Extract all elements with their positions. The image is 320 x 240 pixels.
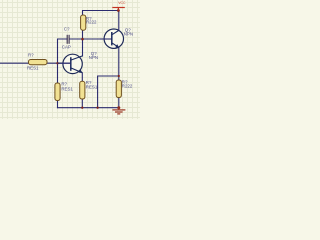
svg-text:CAP: CAP <box>62 45 71 50</box>
svg-text:NPN: NPN <box>89 55 98 60</box>
svg-text:VCC: VCC <box>118 1 126 5</box>
svg-text:R222: R222 <box>86 20 97 25</box>
svg-text:R222: R222 <box>122 83 133 88</box>
svg-text:RES1: RES1 <box>61 87 73 92</box>
svg-text:C?: C? <box>64 26 70 31</box>
svg-text:RES1: RES1 <box>27 66 39 71</box>
svg-text:RES1: RES1 <box>86 84 98 89</box>
svg-text:R?: R? <box>28 53 34 58</box>
svg-text:NPN: NPN <box>124 31 133 36</box>
